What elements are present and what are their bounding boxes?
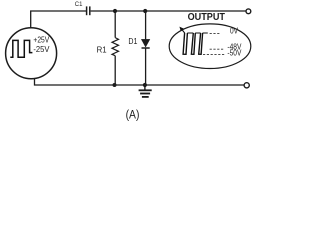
node junction ground (143, 83, 147, 87)
svg-text:R1: R1 (97, 45, 107, 54)
output waveform square wave dips (183, 33, 187, 54)
wire top from source to C1 (31, 11, 86, 28)
resistor R1 branch wire (114, 11, 116, 85)
svg-text:D1: D1 (128, 37, 137, 47)
-48V dashed level (210, 48, 225, 50)
waveform start arrow (182, 29, 185, 33)
output waveform square wave top segments (187, 32, 208, 34)
svg-text:0V: 0V (230, 26, 238, 36)
-50V dashed level (203, 54, 225, 56)
diode D1 branch wire (145, 11, 147, 85)
wire bottom-left from source to ground bus (35, 78, 244, 85)
svg-text:-25V: -25V (33, 45, 50, 54)
diode D1 triangle (142, 39, 150, 47)
output terminal top (246, 9, 251, 14)
svg-text:C1: C1 (75, 0, 83, 7)
svg-text:+25V: +25V (33, 35, 49, 45)
capacitor C1 (87, 6, 90, 15)
wire top from C1 to output terminal (91, 10, 246, 12)
svg-text:-50V: -50V (227, 47, 242, 57)
resistor R1 zigzag (112, 38, 119, 56)
square-wave glyph inside source (10, 40, 32, 57)
output waveform ellipse (169, 24, 251, 69)
0V dashed level (210, 33, 221, 35)
node junction bottom R1 (113, 83, 117, 87)
source generator circle (6, 28, 57, 79)
ground (139, 85, 152, 97)
diode D1 cathode bar (142, 47, 150, 49)
node junction top R1 (113, 9, 117, 13)
svg-text:OUTPUT: OUTPUT (188, 12, 226, 24)
svg-text:(A): (A) (126, 109, 140, 122)
output terminal bottom (244, 83, 249, 88)
node junction top D1 (143, 9, 147, 13)
